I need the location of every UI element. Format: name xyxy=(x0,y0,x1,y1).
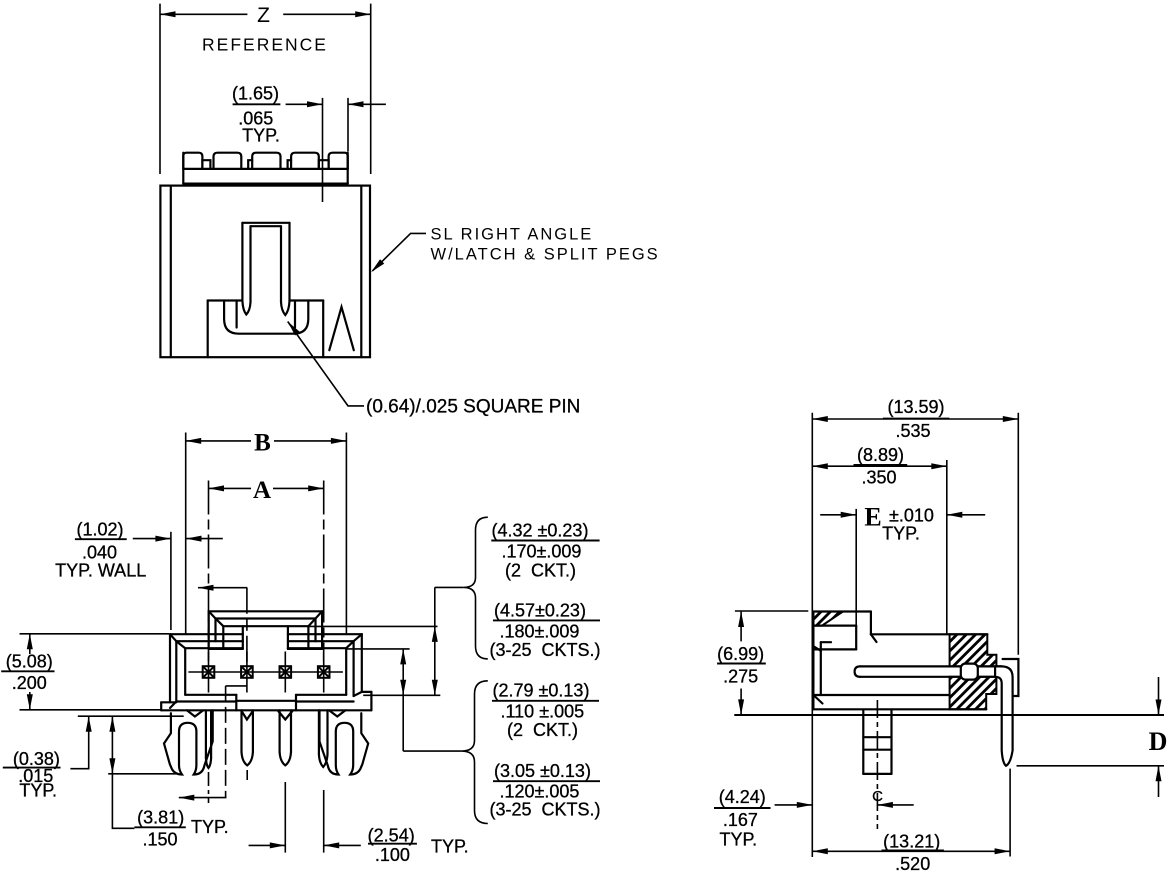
svg-text:(3.81): (3.81) xyxy=(137,808,184,828)
svg-text:Z: Z xyxy=(257,4,272,27)
svg-text:±.010: ±.010 xyxy=(889,506,934,526)
svg-text:TYP.: TYP. xyxy=(19,781,57,801)
svg-text:(0.64)/.025 SQUARE PIN: (0.64)/.025 SQUARE PIN xyxy=(366,397,580,418)
svg-text:.167: .167 xyxy=(723,810,758,830)
svg-text:(2.54): (2.54) xyxy=(368,826,415,846)
svg-text:SL RIGHT ANGLE: SL RIGHT ANGLE xyxy=(431,226,594,244)
svg-text:TYP.: TYP. xyxy=(431,837,469,857)
svg-text:B: B xyxy=(254,430,271,457)
svg-text:(3-25 CKTS.): (3-25 CKTS.) xyxy=(490,640,601,660)
svg-text:REFERENCE: REFERENCE xyxy=(202,35,328,55)
svg-text:.170±.009: .170±.009 xyxy=(502,542,582,562)
svg-text:TYP.: TYP. xyxy=(191,817,229,837)
svg-text:(2 CKT.): (2 CKT.) xyxy=(507,720,578,740)
svg-text:(1.65): (1.65) xyxy=(232,84,279,104)
svg-text:(13.59): (13.59) xyxy=(887,397,944,417)
svg-text:(4.32 ±0.23): (4.32 ±0.23) xyxy=(492,521,589,541)
svg-text:E: E xyxy=(864,503,881,532)
svg-text:.520: .520 xyxy=(895,854,930,873)
svg-text:.350: .350 xyxy=(861,468,896,488)
svg-text:(8.89): (8.89) xyxy=(857,445,904,465)
svg-text:(2 CKT.): (2 CKT.) xyxy=(505,561,576,581)
svg-text:W/LATCH & SPLIT PEGS: W/LATCH & SPLIT PEGS xyxy=(431,246,660,264)
svg-text:.100: .100 xyxy=(375,845,410,865)
svg-text:(3-25 CKTS.): (3-25 CKTS.) xyxy=(490,800,601,820)
svg-text:TYP.: TYP. xyxy=(719,830,757,850)
svg-text:.275: .275 xyxy=(723,667,758,687)
svg-text:(3.05 ±0.13): (3.05 ±0.13) xyxy=(494,761,591,781)
svg-text:TYP. WALL: TYP. WALL xyxy=(55,561,146,581)
svg-text:(4.24): (4.24) xyxy=(719,787,766,807)
svg-text:.120±.005: .120±.005 xyxy=(500,782,580,802)
svg-text:.180±.009: .180±.009 xyxy=(500,622,580,642)
svg-text:D: D xyxy=(1149,727,1168,756)
svg-text:.040: .040 xyxy=(82,543,117,563)
svg-text:.200: .200 xyxy=(12,673,47,693)
svg-text:.150: .150 xyxy=(142,830,177,850)
svg-text:TYP.: TYP. xyxy=(242,126,280,146)
svg-text:(6.99): (6.99) xyxy=(717,644,764,664)
svg-text:(4.57±0.23): (4.57±0.23) xyxy=(494,601,586,621)
svg-text:(5.08): (5.08) xyxy=(6,652,53,672)
svg-text:C: C xyxy=(872,788,883,805)
svg-text:(13.21): (13.21) xyxy=(883,832,940,852)
svg-text:TYP.: TYP. xyxy=(882,524,920,544)
svg-text:(2.79 ±0.13): (2.79 ±0.13) xyxy=(493,681,590,701)
svg-text:.535: .535 xyxy=(895,421,930,441)
svg-text:A: A xyxy=(253,477,271,504)
svg-text:.110 ±.005: .110 ±.005 xyxy=(501,702,585,722)
svg-text:(1.02): (1.02) xyxy=(76,520,123,540)
